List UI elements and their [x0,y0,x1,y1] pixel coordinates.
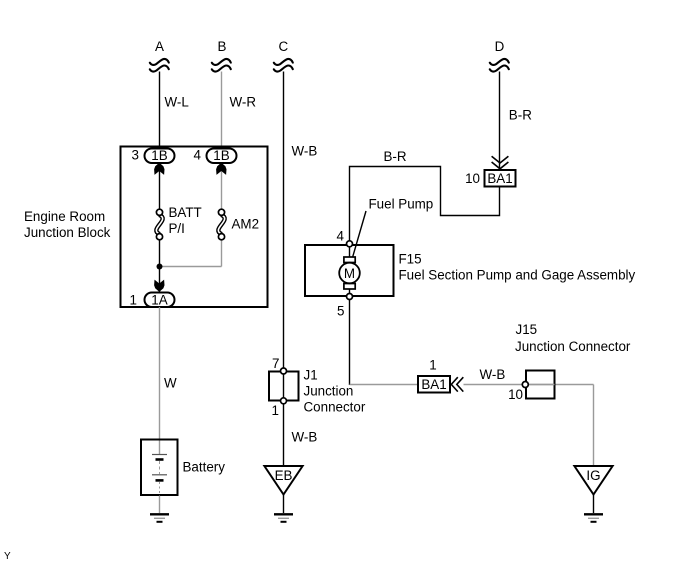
svg-text:1: 1 [272,403,279,418]
svg-text:4: 4 [194,148,202,163]
svg-text:M: M [344,266,355,281]
svg-text:10: 10 [465,171,480,186]
svg-text:Fuel Section Pump and Gage Ass: Fuel Section Pump and Gage Assembly [399,268,636,283]
svg-text:Junction Block: Junction Block [24,225,111,240]
svg-text:W-B: W-B [480,367,506,382]
svg-text:B: B [218,39,227,54]
svg-text:Engine Room: Engine Room [24,209,105,224]
svg-text:3: 3 [132,148,139,163]
svg-text:BA1: BA1 [487,171,512,186]
svg-text:W-L: W-L [165,95,189,110]
svg-text:Connector: Connector [304,400,366,415]
svg-text:Fuel Pump: Fuel Pump [369,197,434,212]
svg-text:EB: EB [275,468,293,483]
svg-text:1A: 1A [151,292,167,307]
svg-text:W-B: W-B [292,430,318,445]
svg-text:5: 5 [337,304,344,319]
svg-text:Junction: Junction [304,384,354,399]
svg-text:10: 10 [508,387,523,402]
svg-text:J1: J1 [304,368,318,383]
svg-text:J15: J15 [516,322,538,337]
svg-text:AM2: AM2 [232,217,260,232]
svg-text:F15: F15 [399,252,422,267]
svg-text:D: D [495,39,505,54]
svg-text:W: W [164,376,177,391]
svg-text:1: 1 [130,293,137,308]
svg-text:Junction Connector: Junction Connector [515,339,631,354]
svg-text:1: 1 [429,358,436,373]
svg-text:Y: Y [4,551,11,562]
svg-text:P/I: P/I [169,221,185,236]
svg-text:1B: 1B [213,148,229,163]
svg-text:4: 4 [337,229,345,244]
svg-text:W-B: W-B [292,144,318,159]
svg-text:BATT: BATT [169,205,202,220]
svg-text:C: C [278,39,288,54]
svg-text:IG: IG [586,468,600,483]
svg-text:B-R: B-R [509,108,532,123]
svg-text:A: A [155,39,164,54]
svg-text:Battery: Battery [183,460,226,475]
svg-text:1B: 1B [151,148,167,163]
svg-text:B-R: B-R [384,149,407,164]
svg-text:W-R: W-R [230,95,257,110]
svg-text:7: 7 [272,356,279,371]
svg-text:BA1: BA1 [421,377,446,392]
